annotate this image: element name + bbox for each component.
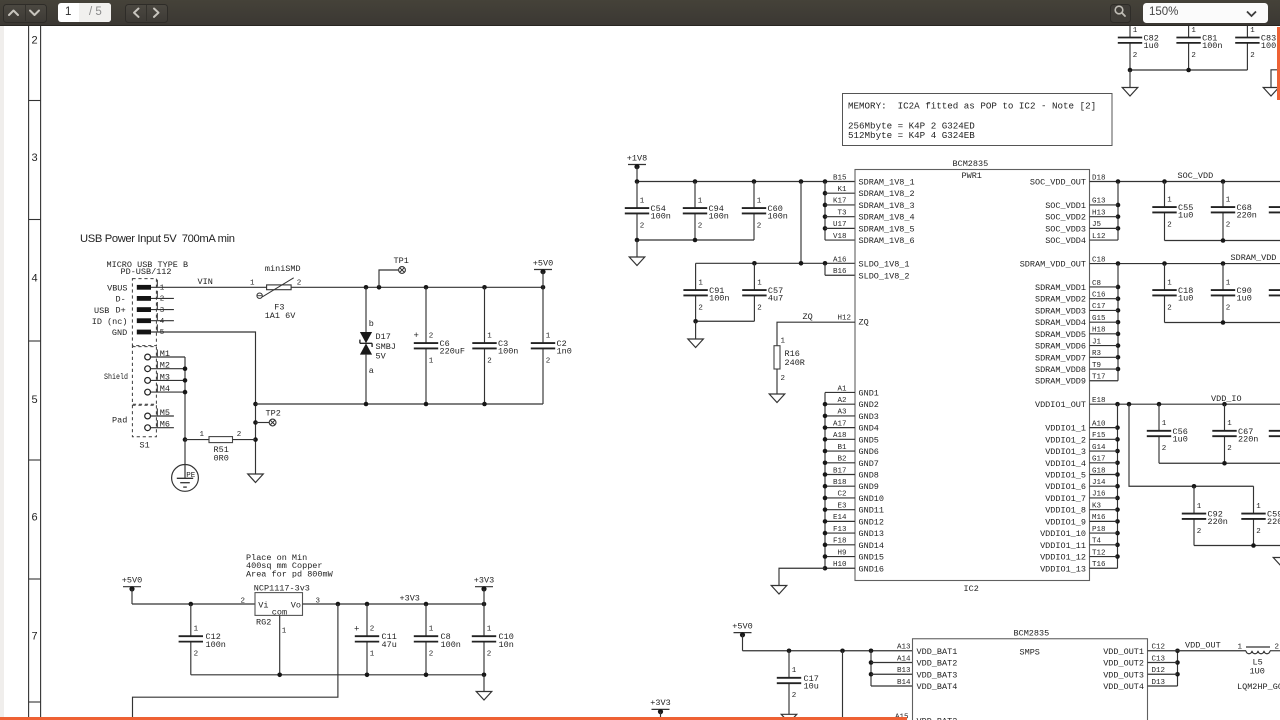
wire M6 stub [151, 427, 174, 429]
svg-text:2: 2 [1227, 445, 1232, 453]
svg-text:MEMORY: IC2A fitted as POP to: MEMORY: IC2A fitted as POP to IC2 - Note… [848, 101, 1096, 112]
svg-text:GND16: GND16 [859, 564, 885, 574]
svg-text:TP1: TP1 [394, 256, 409, 266]
svg-text:SOC_VDD1: SOC_VDD1 [1045, 201, 1086, 211]
svg-text:1: 1 [1226, 279, 1231, 287]
svg-text:LQM2HP_G0: LQM2HP_G0 [1237, 682, 1280, 692]
svg-text:100n: 100n [651, 212, 671, 222]
svg-text:+3V3: +3V3 [650, 698, 670, 708]
svg-text:VDDIO1_11: VDDIO1_11 [1040, 541, 1086, 551]
ground under R16 [769, 394, 785, 403]
capacitor C81 [1176, 26, 1222, 70]
svg-text:GND1: GND1 [859, 388, 879, 398]
wire shield bus to PE [151, 357, 188, 465]
wire SOC_VDD pin bus [1090, 182, 1121, 241]
wire R16 to ground [776, 369, 778, 394]
svg-text:1U0: 1U0 [1250, 667, 1265, 677]
power +5V0 (SMPS) [732, 621, 752, 650]
IC U-IC2 BCM2835 PWR [833, 159, 1106, 594]
svg-text:+: + [354, 624, 359, 634]
svg-text:220n: 220n [1208, 517, 1228, 527]
svg-text:T3: T3 [837, 209, 847, 217]
svg-text:VDD_OUT3: VDD_OUT3 [1103, 670, 1144, 680]
svg-text:2: 2 [640, 222, 645, 230]
svg-text:VBUS: VBUS [107, 283, 127, 293]
svg-text:VDDIO1_OUT: VDDIO1_OUT [1035, 400, 1086, 410]
svg-text:GND3: GND3 [859, 412, 879, 422]
svg-text:D17: D17 [376, 332, 391, 342]
svg-text:+3V3: +3V3 [400, 594, 420, 604]
test point TP2 [256, 409, 281, 426]
svg-text:USB Power Input 5V 700mA min: USB Power Input 5V 700mA min [80, 233, 235, 245]
svg-text:GND2: GND2 [859, 400, 879, 410]
svg-text:1: 1 [757, 197, 762, 205]
svg-text:+1V8: +1V8 [627, 153, 647, 163]
svg-text:VDDIO1_5: VDDIO1_5 [1045, 471, 1086, 481]
svg-text:SDRAM_VDD1: SDRAM_VDD1 [1035, 283, 1086, 293]
svg-text:Area for pd 800mW: Area for pd 800mW [246, 569, 334, 579]
svg-text:7: 7 [31, 632, 38, 644]
wire SDRAM_1V8 pin bus [823, 182, 855, 241]
svg-text:TP2: TP2 [266, 409, 281, 419]
svg-text:1: 1 [282, 627, 287, 635]
wire M5 stub [151, 415, 174, 417]
svg-text:SLDO_1V8_2: SLDO_1V8_2 [859, 271, 910, 281]
power +3V3 (bottom) [650, 698, 670, 720]
capacitor C6 [414, 287, 466, 404]
svg-text:1: 1 [1162, 420, 1167, 428]
svg-text:2: 2 [160, 296, 165, 304]
svg-text:1: 1 [781, 338, 786, 346]
svg-text:VDDIO1_6: VDDIO1_6 [1045, 482, 1086, 492]
svg-text:K1: K1 [837, 186, 847, 194]
svg-text:240R: 240R [785, 358, 805, 368]
svg-text:VDDIO1_3: VDDIO1_3 [1045, 447, 1086, 457]
svg-text:PWR1: PWR1 [962, 171, 982, 181]
capacitor C91 [683, 263, 729, 321]
svg-text:SDRAM_VDD8: SDRAM_VDD8 [1035, 365, 1086, 375]
svg-text:1u0: 1u0 [1178, 294, 1193, 304]
svg-text:GND12: GND12 [859, 517, 885, 527]
svg-text:B14: B14 [897, 679, 911, 687]
svg-text:2: 2 [31, 36, 38, 48]
svg-text:47u: 47u [382, 640, 397, 650]
svg-text:2: 2 [370, 626, 375, 634]
capacitor C68 [1211, 182, 1257, 241]
capacitor C82 [1118, 26, 1159, 70]
svg-text:220uF: 220uF [440, 347, 466, 357]
capacitor C90 [1211, 264, 1252, 323]
svg-text:100n: 100n [1202, 41, 1222, 51]
wire SDRAM_VDD pin bus [1090, 264, 1121, 381]
wire C54-C60 ground rail [635, 238, 754, 257]
wire right-edge ground stub [1271, 70, 1280, 88]
svg-text:RG2: RG2 [256, 617, 271, 627]
resistor R16 [774, 346, 805, 383]
capacitor C60 [742, 182, 788, 241]
svg-text:VDDIO1_8: VDDIO1_8 [1045, 506, 1086, 516]
svg-text:2: 2 [698, 222, 703, 230]
svg-text:VIN: VIN [198, 277, 213, 287]
svg-text:A14: A14 [897, 655, 911, 663]
svg-text:2: 2 [1167, 221, 1172, 229]
svg-text:GND11: GND11 [859, 506, 885, 516]
svg-text:VDD_BAT2: VDD_BAT2 [917, 717, 958, 720]
svg-text:1: 1 [250, 279, 255, 287]
svg-text:1u0: 1u0 [1178, 211, 1193, 221]
wire VDD_IO ground rail [1159, 461, 1280, 466]
svg-text:4: 4 [160, 318, 165, 326]
svg-text:H12: H12 [837, 315, 851, 323]
svg-text:100n: 100n [441, 640, 461, 650]
ground under C82 [1122, 88, 1138, 97]
wire GND pin bus [779, 392, 855, 585]
wire C91-C57 ground rail [693, 319, 754, 339]
ground at right edge [1263, 88, 1279, 97]
svg-text:2: 2 [546, 357, 551, 365]
capacitor C94 [683, 182, 729, 241]
svg-text:6: 6 [31, 513, 38, 525]
svg-text:ID (nc): ID (nc) [92, 317, 128, 327]
regulator RG2 NCP1117-3v3 [254, 583, 321, 635]
wire VIN [151, 277, 267, 287]
svg-text:2: 2 [1133, 52, 1138, 60]
svg-text:+3V3: +3V3 [474, 576, 494, 586]
svg-text:Shield: Shield [104, 372, 128, 382]
svg-text:A16: A16 [833, 256, 847, 264]
wire VDD_IO rail [1090, 394, 1280, 407]
svg-text:GND8: GND8 [859, 471, 879, 481]
svg-text:BCM2835: BCM2835 [1014, 629, 1050, 639]
wire Vi input [132, 598, 255, 607]
capacitor C92 [1182, 486, 1228, 545]
svg-text:VDD_IO: VDD_IO [1211, 394, 1242, 404]
svg-text:SDRAM_VDD4: SDRAM_VDD4 [1035, 318, 1086, 328]
svg-text:SDRAM_VDD2: SDRAM_VDD2 [1035, 295, 1086, 305]
ground PE earth symbol [172, 465, 199, 492]
svg-text:SMBJ: SMBJ [376, 342, 396, 352]
wire SDRAM_VDD rail [1090, 253, 1280, 266]
power +3V3 (regulator) [474, 576, 494, 605]
capacitor C10 [472, 604, 514, 675]
ground under C10 [476, 692, 492, 701]
wire ID stub [151, 320, 174, 322]
svg-text:1: 1 [1197, 503, 1202, 511]
svg-text:10n: 10n [499, 640, 514, 650]
svg-text:1u0: 1u0 [1144, 41, 1159, 51]
svg-text:VDDIO1_12: VDDIO1_12 [1040, 553, 1086, 563]
svg-text:GND7: GND7 [859, 459, 879, 469]
svg-text:SMPS: SMPS [1020, 647, 1040, 657]
svg-text:B13: B13 [897, 667, 911, 675]
test point TP1 [394, 256, 409, 273]
svg-text:4: 4 [31, 274, 38, 286]
svg-text:220n: 220n [1237, 211, 1257, 221]
svg-text:USB: USB [94, 306, 109, 316]
svg-text:D-: D- [115, 295, 125, 305]
svg-text:1: 1 [487, 626, 492, 634]
wire +3V3 down feed [133, 604, 338, 720]
svg-text:SDRAM_1V8_1: SDRAM_1V8_1 [859, 178, 915, 188]
svg-text:2: 2 [237, 431, 242, 439]
svg-text:V18: V18 [833, 233, 847, 241]
wire VDD_OUT net [1178, 640, 1247, 651]
svg-text:SDRAM_VDD9: SDRAM_VDD9 [1035, 377, 1086, 387]
svg-text:2: 2 [1226, 304, 1231, 312]
wire SLDO_1V8 pin bus [825, 264, 855, 276]
svg-text:1n0: 1n0 [557, 347, 572, 357]
svg-text:b: b [369, 319, 374, 329]
svg-text:VDD_BAT1: VDD_BAT1 [917, 647, 958, 657]
svg-text:VDDIO1_2: VDDIO1_2 [1045, 435, 1086, 445]
svg-text:2: 2 [429, 651, 434, 659]
svg-text:SDRAM_VDD: SDRAM_VDD [1231, 253, 1277, 263]
wire VDD_BAT rail [743, 648, 913, 653]
svg-text:SLDO_1V8_1: SLDO_1V8_1 [859, 260, 910, 270]
svg-text:VDDIO1_13: VDDIO1_13 [1040, 564, 1086, 574]
svg-text:SDRAM_VDD3: SDRAM_VDD3 [1035, 306, 1086, 316]
ground under C54 [629, 257, 645, 266]
svg-text:+5V0: +5V0 [732, 621, 752, 631]
wire D- stub [151, 297, 174, 299]
svg-text:+5V0: +5V0 [533, 258, 553, 268]
svg-text:GND14: GND14 [859, 541, 885, 551]
capacitor C18 [1152, 264, 1193, 323]
svg-text:miniSMD: miniSMD [265, 264, 301, 274]
capacitor C3 [472, 287, 518, 404]
svg-text:1: 1 [429, 357, 434, 365]
svg-text:B15: B15 [833, 174, 847, 182]
wire SDRAM_VDD ground rail [1165, 320, 1280, 325]
svg-text:GND13: GND13 [859, 529, 885, 539]
svg-text:SOC_VDD4: SOC_VDD4 [1045, 236, 1086, 246]
svg-text:2: 2 [241, 598, 246, 606]
svg-text:A13: A13 [897, 644, 911, 652]
svg-text:ZQ: ZQ [803, 312, 813, 322]
svg-text:100n: 100n [709, 212, 729, 222]
svg-text:5: 5 [160, 329, 165, 337]
svg-text:1: 1 [698, 197, 703, 205]
svg-text:VDD_OUT4: VDD_OUT4 [1103, 682, 1144, 692]
svg-text:1: 1 [1227, 420, 1232, 428]
capacitor C12 [179, 604, 226, 675]
svg-text:2: 2 [1250, 52, 1255, 60]
svg-text:1: 1 [1226, 196, 1231, 204]
svg-text:2: 2 [1167, 304, 1172, 312]
svg-text:1: 1 [1256, 503, 1261, 511]
svg-text:512Mbyte = K4P 4 G324EB: 512Mbyte = K4P 4 G324EB [848, 130, 975, 141]
power +5V0 (USB rail) [533, 258, 553, 287]
svg-text:ZQ: ZQ [859, 318, 869, 328]
svg-text:4u7: 4u7 [768, 294, 783, 304]
inductor L5 [1237, 643, 1280, 692]
capacitor at right edge (SOC_VDD) [1269, 182, 1280, 241]
wire C92 ground rail [1194, 543, 1280, 548]
capacitor C59 [1241, 486, 1280, 545]
svg-text:VDD_OUT: VDD_OUT [1185, 640, 1221, 650]
svg-text:VDDIO1_1: VDDIO1_1 [1045, 424, 1086, 434]
svg-text:SDRAM_1V8_3: SDRAM_1V8_3 [859, 201, 915, 211]
svg-text:B16: B16 [833, 268, 847, 276]
svg-text:SDRAM_VDD_OUT: SDRAM_VDD_OUT [1020, 260, 1086, 270]
svg-text:SDRAM_1V8_6: SDRAM_1V8_6 [859, 236, 915, 246]
capacitor C8 [414, 604, 461, 675]
svg-text:2: 2 [1191, 52, 1196, 60]
svg-text:1: 1 [640, 197, 645, 205]
svg-text:SDRAM_1V8_5: SDRAM_1V8_5 [859, 224, 915, 234]
svg-text:GND10: GND10 [859, 494, 885, 504]
svg-text:GND9: GND9 [859, 482, 879, 492]
svg-text:100n: 100n [498, 347, 518, 357]
wire +1V8 rail [635, 179, 855, 184]
svg-text:PE: PE [186, 472, 196, 480]
svg-text:VDDIO1_7: VDDIO1_7 [1045, 494, 1086, 504]
capacitor C55 [1152, 182, 1193, 241]
capacitor C17 [777, 651, 819, 715]
capacitor C57 [742, 263, 783, 321]
resistor R51 [185, 431, 256, 464]
IC U-IC3 BCM2835 SMPS [895, 629, 1166, 720]
svg-text:2: 2 [297, 279, 302, 287]
svg-text:SOC_VDD: SOC_VDD [1178, 171, 1214, 181]
svg-text:VDDIO1_10: VDDIO1_10 [1040, 529, 1086, 539]
svg-text:1: 1 [370, 651, 375, 659]
wire VDD_BAT pin bus [869, 651, 913, 686]
svg-text:NCP1117-3v3: NCP1117-3v3 [254, 583, 310, 593]
svg-text:2: 2 [429, 332, 434, 340]
svg-text:100n: 100n [206, 640, 226, 650]
svg-text:PD-USB/112: PD-USB/112 [121, 267, 172, 277]
svg-text:2: 2 [1162, 445, 1167, 453]
svg-text:100n: 100n [709, 294, 729, 304]
capacitor C11 [354, 604, 397, 675]
svg-text:a: a [369, 366, 374, 376]
capacitor C56 [1147, 404, 1188, 463]
svg-text:2: 2 [1256, 528, 1261, 536]
svg-text:+: + [414, 331, 419, 341]
fuse F3 [250, 264, 301, 321]
svg-text:2: 2 [757, 222, 762, 230]
svg-text:GND6: GND6 [859, 447, 879, 457]
svg-text:VDDIO1_9: VDDIO1_9 [1045, 517, 1086, 527]
section title text [80, 233, 235, 245]
svg-text:U17: U17 [833, 221, 847, 229]
svg-text:BCM2835: BCM2835 [953, 159, 989, 169]
svg-text:3: 3 [31, 153, 38, 165]
svg-text:S1: S1 [140, 440, 150, 450]
ground under IC2 [771, 586, 787, 595]
wire branch down at A15 [842, 651, 844, 720]
svg-text:1: 1 [487, 332, 492, 340]
svg-text:VDD_BAT2: VDD_BAT2 [917, 659, 958, 669]
svg-text:2: 2 [194, 651, 199, 659]
wire USB ground rail [151, 332, 258, 474]
svg-text:D+: D+ [115, 306, 125, 316]
svg-text:1: 1 [429, 626, 434, 634]
svg-text:SDRAM_1V8_4: SDRAM_1V8_4 [859, 213, 915, 223]
wire +3V3 output rail [303, 594, 487, 607]
note box: memory fitment [843, 94, 1113, 146]
capacitor C2 [531, 287, 572, 404]
capacitor at right edge (SDRAM_VDD) [1269, 264, 1280, 323]
wire D+ stub [151, 309, 174, 311]
svg-text:220n: 220n [1267, 517, 1280, 527]
svg-text:VDD_BAT4: VDD_BAT4 [917, 682, 958, 692]
wire SOC_VDD rail [1090, 171, 1280, 184]
svg-text:Pad: Pad [112, 415, 127, 425]
svg-text:1: 1 [546, 332, 551, 340]
capacitor C83 [1235, 26, 1280, 70]
svg-text:SOC_VDD3: SOC_VDD3 [1045, 224, 1086, 234]
svg-text:1: 1 [757, 279, 762, 287]
svg-text:1A1 6V: 1A1 6V [265, 311, 297, 321]
wire SLDO rail [696, 261, 855, 266]
svg-text:VDD_OUT2: VDD_OUT2 [1103, 659, 1144, 669]
svg-text:SDRAM_VDD6: SDRAM_VDD6 [1035, 342, 1086, 352]
wire regulator ground rail [191, 673, 487, 692]
svg-text:1: 1 [1191, 27, 1196, 35]
svg-text:2: 2 [487, 651, 492, 659]
svg-text:2: 2 [1197, 528, 1202, 536]
svg-text:SDRAM_VDD7: SDRAM_VDD7 [1035, 353, 1086, 363]
svg-text:1: 1 [1133, 27, 1138, 35]
svg-text:2: 2 [1226, 221, 1231, 229]
wire com to ground rail [279, 615, 281, 674]
svg-text:1u0: 1u0 [1237, 294, 1252, 304]
wire VIN to +5V0 rail [291, 285, 545, 290]
ground at bottom right edge [1273, 558, 1280, 567]
svg-text:VDD_BAT3: VDD_BAT3 [917, 670, 958, 680]
svg-text:SDRAM_VDD5: SDRAM_VDD5 [1035, 330, 1086, 340]
svg-text:GND15: GND15 [859, 553, 885, 563]
svg-text:2: 2 [757, 304, 762, 312]
svg-text:2: 2 [487, 357, 492, 365]
svg-text:SDRAM_1V8_2: SDRAM_1V8_2 [859, 189, 915, 199]
wire VDD_OUT pin bus [1148, 648, 1180, 686]
note text: copper area [246, 553, 334, 579]
capacitor C67 [1212, 404, 1258, 463]
wire ZQ [777, 312, 855, 346]
svg-text:1: 1 [1250, 27, 1255, 35]
capacitor at right edge (VDD_IO) [1269, 404, 1280, 463]
svg-text:1: 1 [1167, 196, 1172, 204]
svg-text:VDDIO1_4: VDDIO1_4 [1045, 459, 1086, 469]
svg-text:GND: GND [112, 328, 127, 338]
wire TP1 link [379, 270, 399, 287]
wire C82-C83 ground rail [1128, 68, 1248, 88]
svg-text:Vi: Vi [258, 601, 268, 611]
wire cap ground rail [256, 402, 544, 407]
diode D17 TVS SMBJ5V [360, 287, 396, 404]
svg-text:VDD_OUT1: VDD_OUT1 [1103, 647, 1144, 657]
svg-text:1: 1 [1238, 643, 1243, 651]
svg-text:1: 1 [194, 626, 199, 634]
svg-text:10u: 10u [804, 681, 819, 691]
wire +1V8 to SLDO rail [800, 182, 802, 264]
svg-text:220n: 220n [1238, 434, 1258, 444]
svg-text:5V: 5V [376, 351, 387, 361]
power +5V0 (regulator) [122, 576, 142, 605]
power +1V8 [627, 153, 647, 181]
svg-text:+5V0: +5V0 [122, 576, 142, 586]
svg-text:2: 2 [698, 304, 703, 312]
svg-text:SOC_VDD_OUT: SOC_VDD_OUT [1030, 178, 1086, 188]
svg-text:2: 2 [781, 375, 786, 383]
svg-text:1: 1 [200, 431, 205, 439]
svg-text:5: 5 [31, 395, 38, 407]
svg-text:GND4: GND4 [859, 424, 879, 434]
svg-text:1: 1 [1167, 279, 1172, 287]
